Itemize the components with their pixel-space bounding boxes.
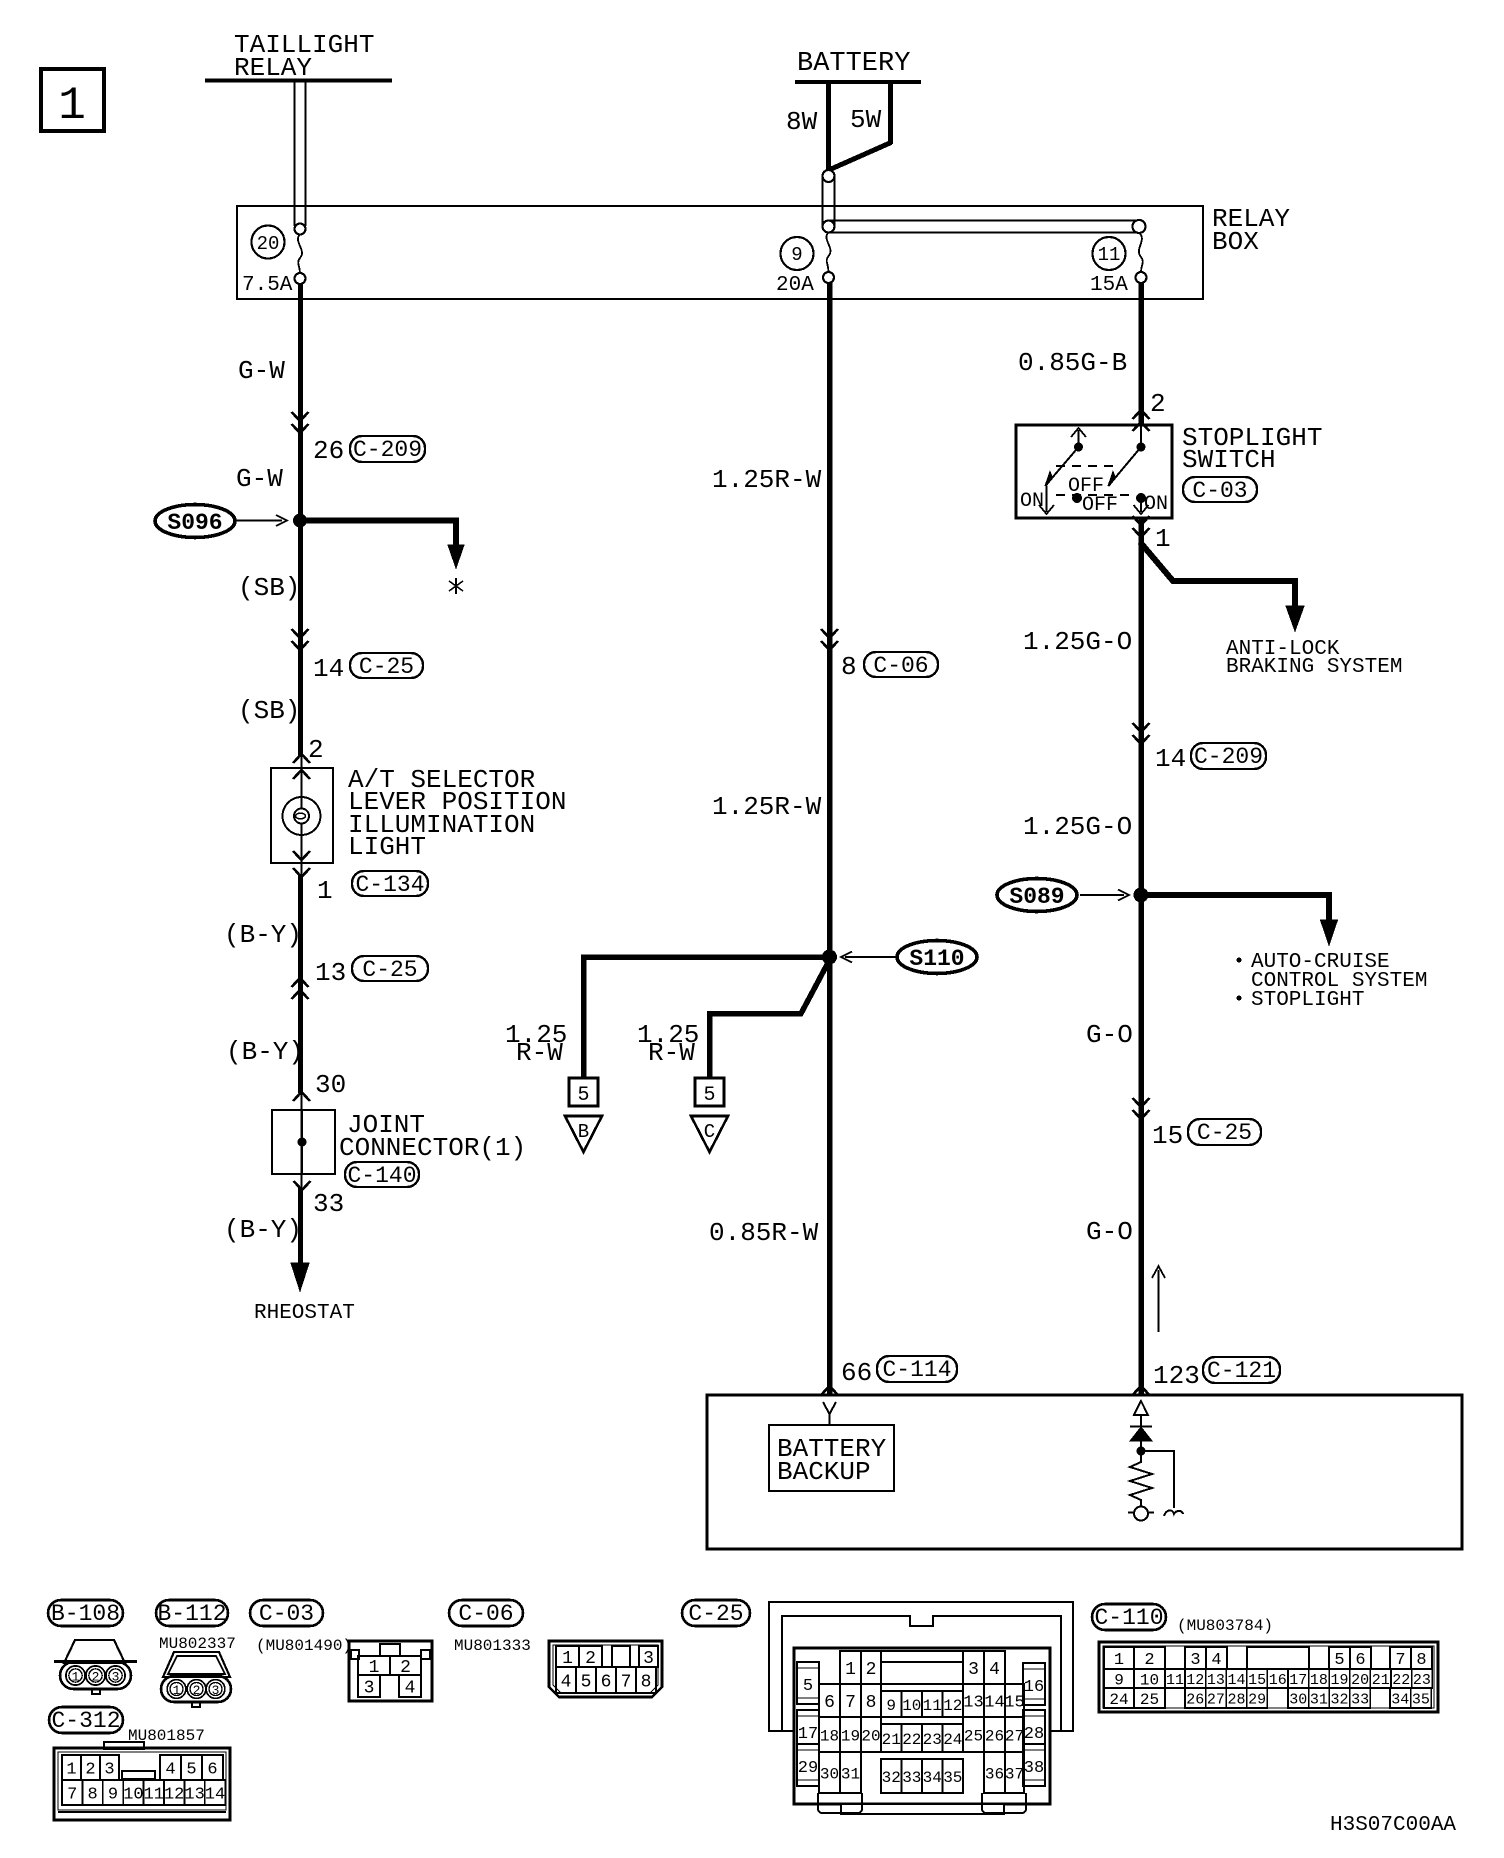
svg-text:BRAKING SYSTEM: BRAKING SYSTEM: [1226, 656, 1402, 679]
connector C-03 label: [250, 1600, 323, 1627]
svg-text:35: 35: [1412, 1691, 1430, 1708]
svg-text:4: 4: [989, 1660, 1000, 1680]
label G-O lower + up arrow: [1152, 1266, 1165, 1332]
svg-text:C-134: C-134: [355, 872, 424, 898]
connector C-25 drawing: [769, 1602, 1073, 1814]
svg-text:1: 1: [317, 876, 333, 906]
svg-text:(B-Y): (B-Y): [226, 1037, 304, 1067]
svg-text:1: 1: [562, 1649, 573, 1669]
svg-text:C-110: C-110: [1094, 1605, 1163, 1631]
chevrons 14 C-25: [292, 629, 309, 650]
svg-text:34: 34: [1391, 1691, 1409, 1708]
svg-text:14: 14: [313, 654, 344, 684]
svg-text:C: C: [704, 1121, 715, 1143]
fuse 20 (7.5A): [242, 224, 306, 298]
connector entry Y middle: [823, 1402, 836, 1414]
svg-text:7: 7: [621, 1673, 632, 1693]
svg-text:5: 5: [186, 1761, 196, 1780]
svg-text:(MU803784): (MU803784): [1177, 1617, 1273, 1635]
svg-text:13: 13: [963, 1694, 983, 1713]
svg-text:BATTERY: BATTERY: [797, 49, 910, 79]
node junction S110: [822, 950, 837, 965]
svg-text:16: 16: [1024, 1678, 1044, 1697]
svg-text:ON: ON: [1020, 490, 1044, 513]
svg-text:20A: 20A: [776, 274, 814, 297]
svg-text:7.5A: 7.5A: [242, 274, 293, 297]
svg-text:14: 14: [1227, 1672, 1245, 1689]
svg-text:8: 8: [1416, 1651, 1426, 1670]
svg-text:C-25: C-25: [362, 957, 417, 983]
svg-text:23: 23: [1413, 1672, 1431, 1689]
svg-text:17: 17: [1289, 1672, 1307, 1689]
svg-text:1: 1: [845, 1660, 856, 1680]
svg-text:29: 29: [798, 1759, 818, 1778]
connector C-312 label: [49, 1707, 123, 1734]
svg-text:4: 4: [165, 1761, 175, 1780]
svg-text:1: 1: [66, 1761, 76, 1780]
node dot and branch: [1137, 1447, 1146, 1456]
svg-text:12: 12: [164, 1786, 184, 1805]
svg-text:29: 29: [1248, 1691, 1266, 1708]
svg-text:2: 2: [92, 1670, 100, 1685]
svg-text:5: 5: [803, 1677, 813, 1696]
svg-text:11: 11: [923, 1697, 942, 1715]
svg-text:B-108: B-108: [51, 1601, 120, 1627]
connector B-112 drawing: [161, 1652, 231, 1707]
chevrons 14 C-209 right: [1133, 723, 1150, 744]
node junction S089: [1134, 888, 1149, 903]
svg-text:6: 6: [1355, 1651, 1365, 1670]
battery backup box: [769, 1414, 894, 1491]
svg-text:23: 23: [923, 1731, 942, 1749]
svg-text:3: 3: [643, 1649, 654, 1669]
svg-text:4: 4: [405, 1679, 416, 1699]
svg-text:19: 19: [841, 1727, 860, 1745]
svg-text:C-25: C-25: [359, 654, 414, 680]
svg-text:H3S07C00AA: H3S07C00AA: [1330, 1814, 1456, 1837]
connector C-110 label: [1092, 1604, 1166, 1631]
svg-text:1: 1: [72, 1670, 80, 1685]
svg-text:10: 10: [123, 1786, 143, 1805]
svg-text:C-25: C-25: [688, 1601, 743, 1627]
svg-text:33: 33: [313, 1189, 344, 1219]
svg-text:25: 25: [964, 1727, 983, 1745]
svg-text:2: 2: [866, 1660, 877, 1680]
svg-text:2: 2: [585, 1649, 596, 1669]
svg-text:26: 26: [1186, 1691, 1204, 1708]
svg-text:14: 14: [1155, 744, 1186, 774]
connector B-108 label: [48, 1600, 123, 1627]
svg-text:12: 12: [1186, 1672, 1204, 1689]
wire 0.85G-B right main upper: [1138, 283, 1144, 425]
svg-text:10: 10: [1140, 1671, 1159, 1689]
svg-text:4: 4: [561, 1673, 572, 1693]
svg-text:5W: 5W: [850, 105, 882, 135]
svg-text:G-W: G-W: [238, 356, 285, 386]
relay box: [237, 204, 1290, 299]
branch to auto-cruise / stoplight: [1141, 895, 1427, 1012]
svg-text:123: 123: [1153, 1361, 1200, 1391]
wire branch to terminal C: [710, 960, 830, 1077]
svg-text:7: 7: [67, 1786, 77, 1805]
svg-text:3: 3: [364, 1679, 375, 1699]
svg-text:15: 15: [1248, 1672, 1266, 1689]
svg-text:37: 37: [1005, 1765, 1024, 1783]
svg-text:CONNECTOR(1): CONNECTOR(1): [339, 1133, 526, 1163]
triangle C: [691, 1116, 728, 1152]
svg-text:24: 24: [943, 1731, 962, 1749]
svg-text:38: 38: [1024, 1759, 1044, 1778]
svg-text:32: 32: [882, 1769, 901, 1787]
svg-text:MU801333: MU801333: [454, 1637, 531, 1655]
svg-text:G-O: G-O: [1086, 1217, 1133, 1247]
connector entry triangle right: [1134, 1401, 1148, 1415]
svg-text:5: 5: [1334, 1651, 1344, 1670]
diode: [1130, 1415, 1152, 1451]
svg-text:66: 66: [841, 1358, 872, 1388]
fuse 9 (20A): [776, 232, 834, 297]
svg-text:27: 27: [1005, 1727, 1024, 1745]
svg-text:21: 21: [1372, 1672, 1390, 1689]
svg-text:6: 6: [824, 1693, 835, 1713]
svg-text:15: 15: [1152, 1121, 1183, 1151]
BATTERY label: [795, 49, 921, 82]
connector C-25 label: [682, 1600, 750, 1627]
svg-text:1: 1: [58, 80, 86, 132]
connector C-03 drawing: [349, 1641, 432, 1701]
svg-text:1: 1: [173, 1683, 181, 1698]
battery lamp leads 8W 5W: [786, 82, 891, 172]
connector C-312 drawing: [54, 1742, 230, 1820]
svg-text:3: 3: [212, 1683, 220, 1698]
svg-text:21: 21: [882, 1731, 901, 1749]
battery connector capsule: [823, 170, 835, 233]
svg-text:13: 13: [315, 958, 346, 988]
svg-text:18: 18: [820, 1727, 839, 1745]
svg-text:6: 6: [601, 1673, 612, 1693]
pin 33: [294, 1181, 311, 1190]
svg-text:36: 36: [985, 1765, 1004, 1783]
terminal 5 box B: [569, 1078, 598, 1107]
svg-text:S096: S096: [167, 510, 222, 536]
svg-text:15A: 15A: [1090, 274, 1128, 297]
connector C-110 drawing: [1099, 1642, 1438, 1712]
svg-text:20: 20: [257, 233, 280, 255]
joint connector (1): [272, 1110, 526, 1174]
svg-text:2: 2: [193, 1683, 201, 1698]
svg-text:C-209: C-209: [1194, 744, 1263, 770]
svg-text:8: 8: [641, 1673, 652, 1693]
svg-text:(SB): (SB): [238, 573, 300, 603]
svg-text:3: 3: [1190, 1651, 1200, 1670]
svg-text:C-114: C-114: [882, 1357, 951, 1383]
svg-text:14: 14: [984, 1694, 1004, 1713]
terminal circle: [1134, 1507, 1148, 1521]
chevrons 26 C-209: [292, 412, 309, 433]
resistor: [1130, 1451, 1152, 1507]
triangle B: [565, 1116, 602, 1152]
svg-text:20: 20: [1351, 1672, 1369, 1689]
svg-text:3: 3: [112, 1670, 120, 1685]
svg-text:10: 10: [902, 1697, 921, 1715]
svg-text:(SB): (SB): [238, 696, 300, 726]
svg-text:3: 3: [968, 1660, 979, 1680]
pin 1 below switch: [1133, 516, 1150, 537]
svg-text:C-06: C-06: [458, 1601, 513, 1627]
svg-text:33: 33: [902, 1769, 921, 1787]
svg-text:5: 5: [577, 1084, 589, 1107]
svg-text:32: 32: [1330, 1691, 1348, 1708]
bus bar in relay box: [830, 220, 1146, 233]
svg-text:27: 27: [1207, 1691, 1225, 1708]
svg-text:SWITCH: SWITCH: [1182, 445, 1276, 475]
TAILLIGHT RELAY label: [205, 30, 392, 83]
svg-text:C-25: C-25: [1197, 1120, 1252, 1146]
svg-text:S110: S110: [909, 946, 964, 972]
svg-text:(B-Y): (B-Y): [224, 1215, 302, 1245]
svg-text:8: 8: [841, 652, 857, 682]
svg-text:34: 34: [923, 1769, 942, 1787]
svg-text:17: 17: [798, 1725, 818, 1744]
svg-text:33: 33: [1351, 1691, 1369, 1708]
splice S089: [997, 879, 1129, 912]
svg-text:8W: 8W: [786, 107, 818, 137]
fuse 11 (15A): [1090, 233, 1147, 297]
svg-text:11: 11: [1098, 244, 1121, 266]
svg-text:6: 6: [207, 1761, 217, 1780]
svg-text:26: 26: [313, 436, 344, 466]
svg-text:15: 15: [1004, 1694, 1024, 1713]
svg-text:B-112: B-112: [157, 1601, 226, 1627]
svg-text:2: 2: [1144, 1651, 1154, 1670]
svg-text:B: B: [578, 1121, 589, 1143]
svg-text:0.85G-B: 0.85G-B: [1018, 348, 1127, 378]
svg-text:(B-Y): (B-Y): [224, 920, 302, 950]
svg-text:G-W: G-W: [236, 464, 283, 494]
svg-text:BOX: BOX: [1212, 227, 1259, 257]
svg-text:2: 2: [308, 735, 324, 765]
frame number 1 box: [41, 69, 104, 132]
splice S110: [841, 941, 977, 974]
svg-text:G-O: G-O: [1086, 1020, 1133, 1050]
svg-text:30: 30: [1289, 1691, 1307, 1708]
svg-text:14: 14: [205, 1786, 225, 1805]
splice S096: [155, 505, 287, 538]
connector label C-25 left: [350, 653, 423, 680]
wire right main lower: [1138, 518, 1144, 1396]
svg-text:OFF: OFF: [1082, 494, 1118, 517]
svg-text:C-209: C-209: [353, 437, 422, 463]
svg-text:1.25R-W: 1.25R-W: [712, 465, 822, 495]
svg-text:BACKUP: BACKUP: [777, 1457, 871, 1487]
svg-text:31: 31: [841, 1765, 860, 1783]
svg-text:28: 28: [1227, 1691, 1245, 1708]
svg-text:5: 5: [581, 1673, 592, 1693]
svg-text:STOPLIGHT: STOPLIGHT: [1251, 989, 1364, 1012]
svg-text:24: 24: [1109, 1691, 1128, 1709]
svg-text:R-W: R-W: [648, 1038, 695, 1068]
svg-text:8: 8: [87, 1786, 97, 1805]
connector B-108 drawing: [54, 1640, 137, 1694]
wire branch to terminal B: [584, 957, 830, 1077]
svg-text:7: 7: [1395, 1651, 1405, 1670]
svg-text:13: 13: [184, 1786, 204, 1805]
svg-text:C-140: C-140: [347, 1163, 416, 1189]
connector label C-06: [864, 652, 938, 679]
wire branch right with arrow: [300, 521, 464, 595]
svg-text:LIGHT: LIGHT: [348, 832, 426, 862]
node junction at S096: [293, 514, 307, 528]
svg-text:25: 25: [1140, 1691, 1159, 1709]
svg-text:28: 28: [1024, 1725, 1044, 1744]
svg-text:S089: S089: [1009, 884, 1064, 910]
svg-text:3: 3: [104, 1761, 114, 1780]
svg-text:C-03: C-03: [1192, 478, 1247, 504]
svg-text:1.25G-O: 1.25G-O: [1023, 627, 1132, 657]
svg-text:13: 13: [1207, 1672, 1225, 1689]
svg-text:C-312: C-312: [51, 1708, 120, 1734]
svg-text:4: 4: [1211, 1651, 1221, 1670]
wire G-W left main: [298, 284, 303, 757]
svg-text:R-W: R-W: [516, 1038, 563, 1068]
svg-text:11: 11: [144, 1786, 164, 1805]
svg-text:31: 31: [1310, 1691, 1328, 1708]
svg-text:1: 1: [1155, 524, 1171, 554]
svg-text:0.85R-W: 0.85R-W: [709, 1218, 819, 1248]
wire from taillight relay (double thin): [295, 82, 306, 226]
svg-text:8: 8: [866, 1693, 877, 1713]
svg-text:30: 30: [315, 1070, 346, 1100]
bottom system box: [707, 1395, 1462, 1549]
connector B-112 label: [156, 1600, 228, 1627]
svg-text:RHEOSTAT: RHEOSTAT: [254, 1302, 355, 1325]
svg-text:30: 30: [820, 1765, 839, 1783]
svg-text:16: 16: [1269, 1672, 1287, 1689]
svg-text:C-121: C-121: [1207, 1358, 1276, 1384]
svg-text:35: 35: [943, 1769, 962, 1787]
connector C-06 label: [449, 1600, 523, 1627]
svg-text:11: 11: [1166, 1672, 1184, 1689]
chevrons 15 C-25 right: [1133, 1098, 1150, 1119]
svg-text:5: 5: [703, 1084, 715, 1107]
connector label C-209: [350, 436, 425, 463]
svg-text:9: 9: [108, 1786, 118, 1805]
wire 1.25R-W middle main: [827, 283, 833, 1396]
svg-text:9: 9: [886, 1697, 896, 1715]
arrow to rheostat: [291, 1263, 309, 1291]
svg-text:(MU801490): (MU801490): [256, 1637, 352, 1655]
svg-text:1: 1: [1114, 1651, 1124, 1670]
svg-text:2: 2: [85, 1761, 95, 1780]
stoplight switch box: [1016, 425, 1172, 518]
branch to anti-lock braking system: [1140, 542, 1402, 679]
svg-text:9: 9: [1114, 1671, 1124, 1689]
svg-text:2: 2: [1150, 389, 1166, 419]
svg-text:18: 18: [1310, 1672, 1328, 1689]
connector C-06 drawing: [549, 1641, 662, 1697]
svg-text:12: 12: [943, 1697, 962, 1715]
svg-text:C-03: C-03: [259, 1601, 314, 1627]
svg-text:22: 22: [1392, 1672, 1410, 1689]
terminal 5 box C: [695, 1078, 724, 1107]
svg-text:7: 7: [845, 1693, 856, 1713]
svg-text:26: 26: [985, 1727, 1004, 1745]
svg-text:9: 9: [791, 244, 802, 266]
connector label C-140: [345, 1162, 419, 1189]
svg-text:20: 20: [861, 1727, 880, 1745]
svg-text:MU802337: MU802337: [159, 1635, 236, 1653]
svg-text:22: 22: [902, 1731, 921, 1749]
svg-text:19: 19: [1330, 1672, 1348, 1689]
svg-text:1.25R-W: 1.25R-W: [712, 792, 822, 822]
A/T selector lever position illumination light: [271, 754, 566, 877]
svg-text:1.25G-O: 1.25G-O: [1023, 812, 1132, 842]
chevrons 8 C-06: [821, 629, 838, 650]
svg-text:ON: ON: [1144, 493, 1168, 516]
svg-text:C-06: C-06: [873, 653, 928, 679]
